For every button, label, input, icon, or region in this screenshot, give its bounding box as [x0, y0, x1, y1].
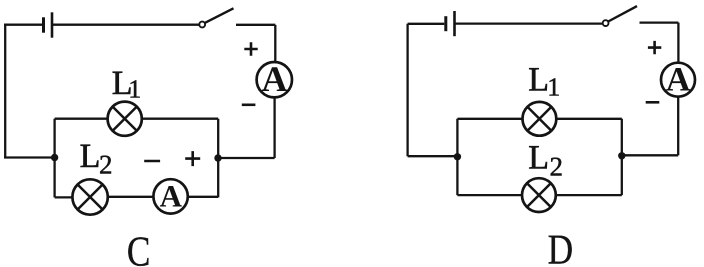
switch S of circuit C: lever arm: [205, 8, 234, 23]
svg-text:A: A: [262, 59, 288, 99]
svg-text:A: A: [666, 62, 691, 99]
svg-text:L: L: [528, 140, 549, 177]
node D2 (right junction of parallel section, D): [618, 152, 625, 159]
wire: C right vertical from ammeter down: [273, 97, 275, 158]
wire: D bottom branch right segment: [556, 194, 622, 196]
ammeter A2 (in series with L2): body circle: [153, 179, 187, 213]
lamp L2 of circuit C: bulb circle with cross: [72, 179, 107, 214]
caption C: [127, 229, 151, 267]
wire: C top horizontal from battery to switch: [53, 24, 199, 26]
svg-text:D: D: [548, 227, 573, 267]
wire: C top-left horizontal to battery: [4, 24, 42, 26]
svg-text:C: C: [127, 229, 151, 267]
- polarity label of ammeter A1: [242, 104, 256, 107]
node B (right junction of parallel section, C): [214, 154, 221, 161]
svg-text:2: 2: [550, 151, 564, 181]
wire: C horizontal from right rail to node B: [218, 157, 275, 159]
wire: D horizontal from right rail to node D2: [622, 154, 678, 156]
wire: D top horizontal from switch to top-right corner: [640, 21, 679, 23]
wire: C top branch left segment: [55, 118, 108, 120]
wire: D top-left horizontal to battery: [408, 23, 445, 25]
wire: C top branch right segment: [142, 118, 218, 120]
ammeter A (series, right side of D): body circle: [661, 63, 695, 97]
wire: C top horizontal from switch to top-right corner: [236, 24, 275, 26]
lamp L1 of circuit C: bulb circle with cross: [108, 102, 142, 136]
- polarity label of ammeter A2: [144, 160, 160, 163]
svg-text:1: 1: [547, 72, 560, 101]
node A (left junction of parallel section, C): [51, 154, 58, 161]
wire: D bottom branch left segment: [457, 194, 522, 196]
lamp L1 of circuit D: bulb circle with cross: [523, 102, 557, 136]
wire: D parallel-box left vertical: [456, 119, 458, 195]
+ polarity label of ammeter A (D): [648, 41, 661, 54]
switch S (open) of circuit D: pivot circle: [603, 20, 609, 26]
switch S of circuit D: lever arm: [608, 6, 637, 21]
battery (cell) of circuit C: long positive plate: [51, 12, 54, 37]
svg-text:L: L: [528, 62, 549, 99]
+ polarity label of ammeter A2: [185, 151, 200, 166]
battery (cell) of circuit D: short negative plate: [444, 16, 447, 31]
wire: D right vertical from ammeter down: [677, 97, 679, 156]
wire: D parallel-box right vertical: [621, 119, 623, 195]
svg-text:1: 1: [128, 75, 141, 104]
battery (cell) of circuit D: long positive plate: [453, 11, 456, 36]
ammeter A1 (series, right side of C): body circle: [257, 62, 292, 97]
wire: D left rail vertical: [406, 24, 408, 156]
wire: C parallel-box right vertical: [217, 119, 219, 198]
wire: C bottom branch between lamp L2 and ammeter A2: [108, 196, 154, 198]
svg-text:L: L: [80, 138, 101, 175]
wire: D top horizontal from battery to switch: [456, 22, 603, 24]
wire: C bottom branch segment node A side: [55, 196, 73, 198]
wire: C parallel-box left vertical: [53, 119, 55, 198]
- polarity label of ammeter A (D): [646, 101, 660, 104]
wire: C bottom branch from ammeter A2 to right vertical: [188, 196, 218, 198]
wire: D from left rail to node D1: [408, 155, 458, 157]
wire: D top branch left segment: [457, 118, 522, 120]
switch S (open) of circuit C: pivot circle: [199, 22, 205, 28]
wire: C left rail vertical: [4, 25, 6, 158]
+ polarity label of ammeter A1: [244, 42, 257, 55]
wire: C from left rail to node A: [4, 156, 55, 158]
node D1 (left junction of parallel section, D): [454, 153, 461, 160]
battery (cell) of circuit C: short negative plate: [42, 17, 45, 32]
wire: D right vertical down to ammeter: [677, 23, 679, 63]
svg-text:A: A: [160, 179, 183, 214]
lamp L2 of circuit D: bulb circle with cross: [522, 178, 556, 212]
caption D: [548, 227, 573, 267]
wire: C right vertical down to ammeter: [274, 25, 276, 62]
svg-text:2: 2: [99, 149, 113, 179]
wire: D top branch right segment: [556, 118, 622, 120]
